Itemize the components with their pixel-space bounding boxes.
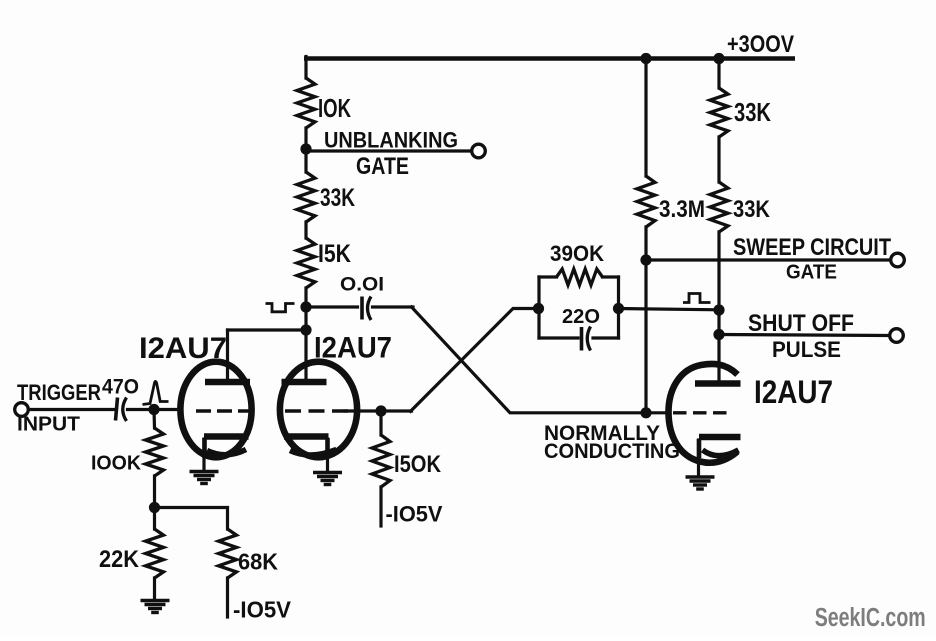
svg-text:I5K: I5K bbox=[318, 240, 351, 268]
svg-text:SHUT OFF: SHUT OFF bbox=[748, 310, 854, 337]
svg-text:UNBLANKING: UNBLANKING bbox=[324, 128, 458, 153]
svg-text:GATE: GATE bbox=[356, 153, 409, 180]
svg-text:22K: 22K bbox=[99, 546, 139, 573]
svg-text:-IO5V: -IO5V bbox=[233, 597, 292, 623]
svg-text:39OK: 39OK bbox=[550, 241, 605, 266]
svg-text:3.3M: 3.3M bbox=[659, 196, 705, 223]
svg-text:47O: 47O bbox=[102, 376, 139, 399]
svg-text:PULSE: PULSE bbox=[772, 337, 841, 362]
svg-text:22O: 22O bbox=[562, 305, 600, 328]
svg-text:GATE: GATE bbox=[786, 261, 837, 284]
svg-text:SeekIC.com: SeekIC.com bbox=[815, 604, 926, 632]
svg-text:+3OOV: +3OOV bbox=[727, 31, 795, 58]
svg-text:68K: 68K bbox=[238, 549, 278, 575]
svg-text:33K: 33K bbox=[734, 97, 771, 127]
svg-text:SWEEP CIRCUIT: SWEEP CIRCUIT bbox=[733, 234, 891, 261]
svg-text:INPUT: INPUT bbox=[17, 413, 80, 436]
svg-text:TRIGGER: TRIGGER bbox=[17, 380, 101, 405]
svg-text:O.OI: O.OI bbox=[340, 274, 384, 296]
svg-text:I2AU7: I2AU7 bbox=[139, 332, 227, 365]
svg-text:IOOK: IOOK bbox=[91, 452, 141, 475]
svg-text:I2AU7: I2AU7 bbox=[314, 332, 392, 365]
svg-text:CONDUCTING: CONDUCTING bbox=[544, 439, 680, 463]
svg-text:I5OK: I5OK bbox=[394, 451, 442, 478]
svg-text:I2AU7: I2AU7 bbox=[754, 374, 833, 410]
svg-text:33K: 33K bbox=[320, 184, 355, 212]
svg-text:IOK: IOK bbox=[318, 93, 351, 123]
svg-text:33K: 33K bbox=[733, 196, 771, 223]
svg-text:-IO5V: -IO5V bbox=[386, 502, 443, 527]
